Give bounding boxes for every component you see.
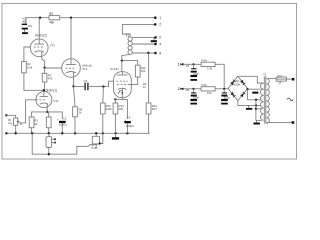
tube VL1.2 6N2P (upper SRPP triode) <box>30 39 48 57</box>
wire screen to R11 <box>128 77 138 85</box>
wire B+ top rail <box>26 18 156 24</box>
resistor R14 <box>201 62 215 66</box>
ground bar PSU <box>246 108 252 110</box>
svg-text:100: 100 <box>207 91 212 95</box>
svg-text:VT1: VT1 <box>53 99 59 103</box>
node R10 junction <box>102 85 104 87</box>
svg-text:T1: T1 <box>125 34 129 38</box>
wire pot bottom to rail <box>15 125 17 133</box>
bridge rectifier VD1 <box>228 76 248 100</box>
svg-text:10u: 10u <box>28 24 33 28</box>
wire R14 to down link <box>215 64 224 89</box>
PSU terminal 2+ <box>182 88 184 90</box>
wire R3 bottom <box>31 128 33 134</box>
svg-text:6.3B: 6.3B <box>91 146 97 150</box>
svg-text:200: 200 <box>119 107 124 111</box>
node C6 <box>192 88 194 90</box>
node C7 <box>223 88 225 90</box>
svg-text:2W10M: 2W10M <box>231 82 240 86</box>
svg-text:6n14n: 6n14n <box>110 67 119 71</box>
wire R11 top to plate node <box>122 61 138 66</box>
resistor R3 <box>29 117 34 128</box>
svg-text:VT3: VT3 <box>50 43 56 47</box>
svg-text:2: 2 <box>159 23 161 27</box>
AC symbol <box>287 98 293 101</box>
svg-text:1000u: 1000u <box>59 122 67 126</box>
wire bridge top to T2 <box>238 76 264 83</box>
svg-text:220u: 220u <box>193 72 200 76</box>
wire R15 to bridge <box>215 88 228 90</box>
potentiometer R1 <box>14 118 22 125</box>
svg-text:2: 2 <box>178 87 180 91</box>
wire tube1 grid left <box>24 47 31 62</box>
svg-text:R5: R5 <box>49 12 53 16</box>
svg-text:6H2n(2): 6H2n(2) <box>35 34 47 38</box>
capacitor C5 <box>190 64 197 81</box>
wire grid riser from pot <box>21 100 36 123</box>
svg-text:8: 8 <box>159 51 161 55</box>
wire feedback down <box>148 53 150 103</box>
wire T1 bottom to plate <box>122 54 130 60</box>
svg-text:47k: 47k <box>8 121 13 125</box>
terminal 8 <box>154 52 157 55</box>
svg-text:C2: C2 <box>63 117 67 121</box>
node cathode <box>46 111 48 113</box>
ground T2 secondary <box>256 120 258 122</box>
node C5 <box>192 63 194 65</box>
wire R4 leads <box>48 112 50 117</box>
resistor R8 (follower cathode) <box>73 107 78 117</box>
svg-text:0.5k: 0.5k <box>27 65 33 69</box>
resistor R15 <box>201 87 215 91</box>
wire R13 leads <box>114 99 116 103</box>
capacitor tap marker <box>252 92 258 94</box>
wire R10 leads <box>102 87 105 103</box>
capacitor C3 <box>85 83 88 91</box>
resistor R12 <box>146 103 151 114</box>
wire R2 bottom to tube4 anode node <box>24 73 44 91</box>
svg-text:C4: C4 <box>127 116 131 120</box>
resistor R4 <box>46 117 51 128</box>
wire tap 4 <box>132 43 155 45</box>
svg-text:2A: 2A <box>278 81 281 85</box>
wire primary bottom <box>267 122 293 124</box>
node output cathode <box>114 98 116 100</box>
wire tap 2 <box>248 99 262 101</box>
svg-text:240k: 240k <box>106 107 113 111</box>
ground at terminal 0 <box>153 37 155 40</box>
svg-text:+: + <box>57 118 59 122</box>
capacitor C1 <box>22 24 28 30</box>
svg-text:6H2n(1): 6H2n(1) <box>46 89 58 93</box>
node feedback takeoff <box>147 52 149 54</box>
wire AC down link <box>247 89 249 100</box>
svg-text:C3: C3 <box>84 79 88 83</box>
wire to C4 <box>122 99 127 119</box>
wire input to pot <box>6 115 15 118</box>
node tube1 anode junction <box>39 17 41 19</box>
terminal 4 <box>154 43 157 46</box>
terminal 0 <box>154 36 157 39</box>
capacitor C7 <box>221 89 228 105</box>
wire tap 0 <box>132 36 156 38</box>
node tap 2 <box>255 99 257 101</box>
mains terminal top <box>292 78 295 81</box>
wire R12 bottom to rail <box>148 114 150 133</box>
svg-text:VD1: VD1 <box>234 79 240 83</box>
capacitor C6 <box>190 89 197 105</box>
resistor R11 <box>135 65 140 77</box>
transformer T2 core <box>263 76 265 123</box>
svg-text:470: 470 <box>48 77 53 81</box>
resistor R5 <box>49 16 60 20</box>
wire tube2 anode to rail <box>70 18 72 59</box>
wire cathode right branch to C2 <box>47 112 62 119</box>
wire plate to tube top <box>121 61 123 72</box>
capacitor C4 <box>124 121 131 123</box>
node tube2 anode junction <box>70 17 72 19</box>
wire tube1 cathode down <box>42 57 45 68</box>
svg-text:0: 0 <box>159 36 161 40</box>
wire tap 8 <box>132 52 156 54</box>
svg-text:T2: T2 <box>263 72 267 76</box>
transformer T2 secondary winding <box>261 83 264 120</box>
wire cathode node <box>115 98 122 100</box>
wire cathode left branch <box>32 112 48 117</box>
node secondary mid <box>255 104 257 106</box>
resistor R7 <box>42 73 47 82</box>
wire tap 3 stub <box>256 108 261 110</box>
wire tap bottom <box>256 119 262 121</box>
svg-text:R15: R15 <box>202 83 208 87</box>
resistor R13 <box>113 103 118 114</box>
svg-text:220u: 220u <box>224 95 231 99</box>
ground under C1 <box>22 32 28 34</box>
tube VL3 6P14P output pentode <box>114 72 132 100</box>
ground symbol mid rail <box>115 133 117 137</box>
tube VL2 6N2P (cathode follower) <box>62 59 81 78</box>
terminal 1 <box>154 16 157 19</box>
wire node to tube2 grid <box>45 67 62 69</box>
svg-text:R14: R14 <box>202 58 208 62</box>
fuse FU1 <box>276 77 286 81</box>
node cathode follower out <box>72 85 74 87</box>
wire cap to output grid <box>88 81 114 86</box>
node SRPP mid <box>43 67 45 69</box>
svg-text:FU1: FU1 <box>277 74 283 78</box>
svg-text:150: 150 <box>141 69 146 73</box>
wire bridge bottom to secondary mid <box>238 101 261 106</box>
wire primary top to fuse <box>267 78 277 80</box>
ground rail <box>6 132 150 134</box>
resistor R2 (SRPP grid link) <box>22 62 27 73</box>
svg-text:1: 1 <box>178 63 180 67</box>
svg-text:40u: 40u <box>22 20 27 24</box>
wire AC right to winding <box>248 88 261 90</box>
node tube4 anode <box>43 89 45 91</box>
capacitor C2 <box>59 121 66 123</box>
svg-text:1: 1 <box>159 16 161 20</box>
transformer T2 primary winding <box>267 79 270 124</box>
transformer T1 primary loop <box>122 24 155 37</box>
svg-text:220u: 220u <box>193 95 200 99</box>
wire PSU row2 <box>183 88 201 90</box>
ground stem PSU <box>248 105 250 108</box>
wire R7 leads <box>44 68 46 74</box>
svg-text:C5: C5 <box>186 64 190 68</box>
tube VL1.1 6N2P (input triode) <box>36 92 52 108</box>
wire tube1 anode to rail <box>38 18 40 39</box>
wire to coupling cap <box>74 86 85 88</box>
wire PSU row1 <box>183 63 201 65</box>
border frame <box>2 3 297 159</box>
node rail dots <box>5 132 128 134</box>
svg-text:VT2: VT2 <box>82 67 88 71</box>
heater VL2 loop <box>95 133 97 136</box>
input jack XS1 top <box>5 114 7 116</box>
node tap 3 <box>255 108 257 110</box>
svg-text:4R7: 4R7 <box>152 107 158 111</box>
svg-text:3.3k: 3.3k <box>207 66 213 70</box>
wire R8 leads <box>74 86 76 106</box>
svg-text:C6: C6 <box>186 88 190 92</box>
terminal 2 <box>154 23 157 26</box>
mains terminal bottom <box>292 121 295 124</box>
wire fuse to mains <box>287 78 293 80</box>
svg-text:46k: 46k <box>49 21 55 25</box>
svg-text:1000u: 1000u <box>126 124 134 128</box>
node plate <box>121 59 123 61</box>
heater VL1 <box>46 133 56 154</box>
wire winding taps vertical <box>255 100 257 121</box>
heater VL2 filament <box>89 144 97 146</box>
svg-text:4: 4 <box>159 42 161 46</box>
PSU terminal 1+ <box>182 63 184 65</box>
wire tube2 cathode down <box>73 77 75 86</box>
wire tube4 cathode <box>46 107 48 112</box>
transformer T1 winding <box>128 37 132 55</box>
node bridge AC right <box>246 88 248 90</box>
wire C1 lead <box>23 30 25 33</box>
resistor R10 (grid leak) <box>100 103 105 114</box>
heater rail bottom <box>32 133 89 154</box>
